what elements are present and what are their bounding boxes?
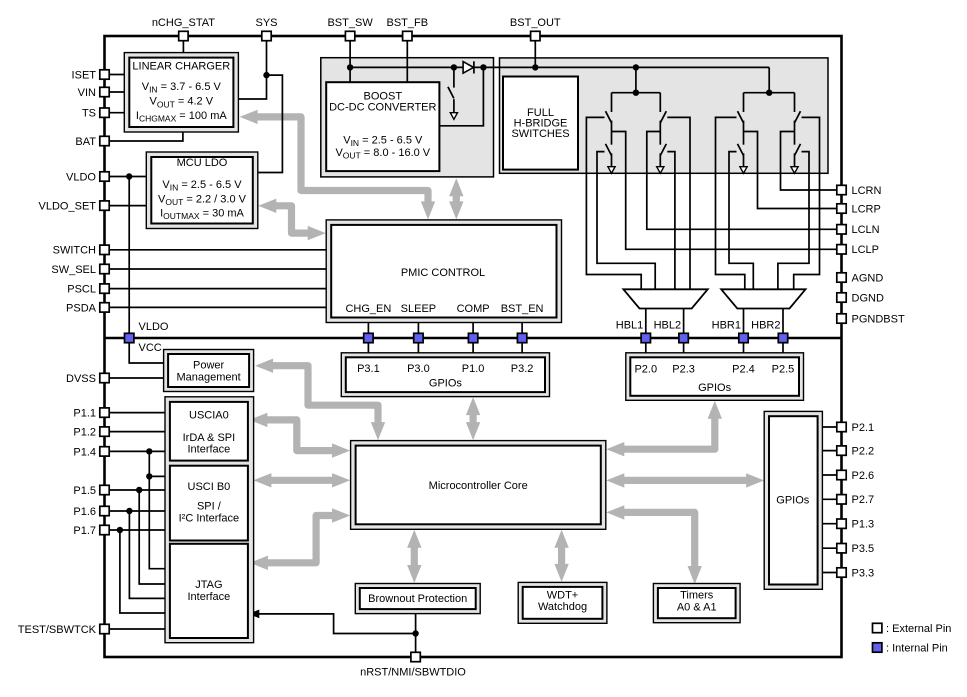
block Brownout Protection [355,584,480,614]
wire rail to right h-bridge [768,67,770,92]
bus arrow JTAG to Microcontroller Core [250,508,350,570]
svg-text:SWITCH: SWITCH [53,245,96,257]
block MCU LDO [146,152,257,229]
label MCU LDO [158,157,247,221]
svg-text:BST_EN: BST_EN [501,303,544,315]
block GPIOs P2 [626,353,804,401]
wire right GPIOs to P2.6 [822,474,841,476]
label FULL H-BRIDGE SWITCHES [511,107,569,140]
wire TS to LINEAR CHARGER [105,112,125,114]
svg-text:P3.0: P3.0 [407,363,430,375]
legend external pin [873,623,952,635]
wire leg D output to LCRN [781,132,842,191]
pin LCLP [837,244,879,256]
pin VLDO_SET [39,201,110,213]
label Microcontroller Core [429,480,528,492]
label LINEAR CHARGER [132,60,230,123]
svg-text:VIN: VIN [78,87,96,99]
svg-text:P1.5: P1.5 [73,485,96,497]
block JTAG Interface [170,544,248,638]
wire BST_FB to BOOST [406,36,408,82]
svg-text:ISET: ISET [72,69,97,81]
block Power Management [164,350,254,392]
svg-text:I²C Interface: I²C Interface [179,513,240,525]
svg-text:COMP: COMP [457,303,490,315]
svg-text:PMIC CONTROL: PMIC CONTROL [401,267,485,279]
label JTAG Interface [187,579,230,603]
svg-text:P2.6: P2.6 [852,470,875,482]
svg-text:nRST/NMI/SBWTDIO: nRST/NMI/SBWTDIO [360,667,466,679]
pin nCHG_STAT [152,17,215,41]
wire SLEEP to GPIOs [417,323,419,353]
svg-text:CHG_EN: CHG_EN [345,303,391,315]
wire HBR2 to GPIOs [782,309,784,353]
wire leg C low tap to mux [729,152,753,290]
boost shaded region [321,58,494,177]
svg-text:Power: Power [193,359,225,371]
svg-text:Interface: Interface [187,443,230,455]
pin P2.7 [837,494,874,506]
switch HB right leg D low [791,132,801,174]
wire TEST/SBWTCK to JTAG [105,628,170,630]
bus arrow GPIOs P2 to Microcontroller Core [606,401,722,457]
svg-text:BST_SW: BST_SW [327,17,373,29]
pin LCLN [837,224,880,236]
wire P1.5 net [105,487,170,584]
svg-text:GPIOs: GPIOs [698,382,732,394]
wire VLDO_SET to MCU LDO [105,205,147,207]
pin P1.2 [73,427,109,439]
label USCI B0 [179,481,240,525]
svg-text:JTAG: JTAG [195,579,222,591]
pin TS [82,108,109,120]
svg-text:HBL1: HBL1 [616,320,644,332]
wire COMP to GPIOs [472,323,474,353]
switch boost [448,67,458,119]
pin AGND [837,272,884,284]
wire leg B low tap to mux [667,152,675,290]
svg-text:P2.4: P2.4 [732,364,755,376]
wire SYS net [238,36,282,173]
svg-text:P1.6: P1.6 [73,506,96,518]
divider between PMIC and MCU sections [105,337,842,340]
block Microcontroller Core [351,441,606,530]
svg-text:P1.1: P1.1 [73,408,96,420]
block right GPIOs [764,411,822,589]
svg-text:P3.1: P3.1 [357,363,380,375]
bus arrow GPIOs P3 to Microcontroller Core [466,397,480,440]
pin VLDO [66,171,109,183]
wire leg B output to LCLN [647,132,842,230]
switch HB right leg D high [795,93,801,132]
internal pin CHG_EN [364,333,373,342]
svg-text:P1.3: P1.3 [852,519,875,531]
pin P1.4 [73,446,109,458]
svg-text:IrDA & SPI: IrDA & SPI [183,432,236,444]
internal pin HBR2 [751,320,788,343]
svg-text:SPI /: SPI / [197,501,222,513]
switch HB left leg A low [606,132,616,174]
svg-text:P1.4: P1.4 [73,446,96,458]
wire diode to BOOST feedback [439,67,483,125]
svg-text:LCLP: LCLP [852,244,880,256]
switch HB left leg A high [606,93,612,132]
block USCIA0 IrDA and SPI Interface [170,402,248,461]
wire BST_OUT drop [532,36,538,71]
label BOOST DC-DC CONVERTER [329,91,436,161]
svg-text:P3.5: P3.5 [852,543,875,555]
pin LCRN [837,185,882,197]
svg-text:HBR2: HBR2 [751,320,780,332]
wire HBL1 to GPIOs [645,309,647,353]
label GPIOs P3 [357,363,533,390]
internal pin HBL2 [654,320,689,343]
svg-text:P2.3: P2.3 [672,364,695,376]
svg-text:P2.1: P2.1 [852,422,875,434]
svg-text:BST_OUT: BST_OUT [510,17,561,29]
wire right GPIOs to P3.5 [822,547,841,549]
svg-text:AGND: AGND [852,272,884,284]
wire P1.2 to USCIA0 [105,431,170,433]
pin P1.5 [73,485,109,497]
svg-text:A0 & A1: A0 & A1 [677,601,717,613]
svg-text:DGND: DGND [852,292,884,304]
svg-text:LINEAR CHARGER: LINEAR CHARGER [132,60,230,72]
svg-text:PSDA: PSDA [66,302,97,314]
wire P1.1 to USCIA0 [105,412,170,414]
pin LCRP [837,203,881,215]
block Timers A0 A1 [653,584,740,623]
wire leg C high tap to mux [716,117,745,289]
pin nRST/NMI/SBWTDIO [360,652,466,678]
svg-text:Timers: Timers [680,589,714,601]
svg-text:SLEEP: SLEEP [401,303,436,315]
wire leg A high tap to mux [586,117,641,289]
pin PSDA [66,302,109,314]
wire PSDA to PMIC CONTROL [105,306,327,308]
pin BAT [75,136,109,148]
block USCI B0 SPI I2C Interface [170,466,248,541]
svg-text:nCHG_STAT: nCHG_STAT [152,17,215,29]
svg-text:SW_SEL: SW_SEL [51,264,96,276]
block GPIOs P3 [341,353,549,397]
pin P2.2 [837,446,874,458]
svg-text:P1.0: P1.0 [462,363,485,375]
pin P3.5 [837,543,874,555]
label USCIA0 [183,410,236,456]
h-bridge shaded region [500,58,829,173]
block WDT+ Watchdog [518,582,607,623]
svg-text:: Internal Pin: : Internal Pin [886,643,948,655]
svg-text:: External Pin: : External Pin [886,623,951,635]
label Brownout Protection [368,593,467,605]
label WDT+ Watchdog [538,589,587,613]
svg-text:Watchdog: Watchdog [538,601,587,613]
bus arrow Microcontroller Core to right GPIOs [606,473,764,487]
svg-text:DC-DC CONVERTER: DC-DC CONVERTER [329,102,436,114]
block BOOST DC-DC CONVERTER [326,82,439,171]
legend internal pin [873,643,948,655]
pin PGNDBST [837,313,905,325]
wire leg A low tap to mux [597,152,655,290]
internal pin HBL1 [616,320,651,343]
svg-text:VLDO: VLDO [66,171,96,183]
svg-text:SYS: SYS [255,17,277,29]
internal pin SLEEP [414,333,423,342]
pin P1.6 [73,506,109,518]
bus arrow Microcontroller Core to Brownout Protection [407,530,421,583]
svg-text:LCLN: LCLN [852,224,880,236]
wire BAT to LINEAR CHARGER [105,132,183,141]
svg-text:Management: Management [176,371,240,383]
wire CHG_EN to GPIOs [367,323,369,353]
svg-text:USCIA0: USCIA0 [189,410,229,422]
pin P3.3 [837,567,874,579]
mux right h-bridge [721,289,805,308]
svg-text:P2.5: P2.5 [772,364,795,376]
wire SW_SEL to PMIC CONTROL [105,268,327,270]
pin DGND [837,292,884,304]
svg-text:DVSS: DVSS [66,373,96,385]
pin P2.6 [837,470,874,482]
svg-text:Interface: Interface [187,591,230,603]
label Power Management [176,359,240,383]
svg-text:SWITCHES: SWITCHES [511,128,569,140]
wire leg D low tap to mux [778,152,809,290]
svg-text:WDT+: WDT+ [547,589,578,601]
block PMIC CONTROL [326,220,561,323]
wire DVSS to Power Management [105,377,164,379]
pin ISET [72,69,110,81]
pin P1.7 [73,525,109,537]
svg-text:VCC: VCC [139,342,162,354]
svg-text:P3.3: P3.3 [852,567,875,579]
svg-text:GPIOs: GPIOs [429,377,463,389]
wire P1.6 net [105,508,170,599]
svg-text:BAT: BAT [75,136,96,148]
wire leg D high tap to mux [794,117,820,289]
label Timers A0 A1 [677,589,717,613]
wire ISET to LINEAR CHARGER [105,74,125,76]
wire HBR1 to GPIOs [743,309,745,353]
wire P1.4 net [105,448,170,569]
internal pin COMP [468,333,477,342]
wire HBL2 to GPIOs [683,309,685,353]
switch HB right leg C high [738,93,744,132]
wire nCHG_STAT to LINEAR CHARGER [182,36,184,53]
switch HB right leg C low [738,132,748,174]
wire right GPIOs to P3.3 [822,572,841,574]
pin P1.3 [837,519,874,531]
pin SW_SEL [51,264,109,276]
wire P1.7 net [105,527,170,613]
pin P1.1 [73,408,109,420]
pin VIN [78,87,110,99]
wire leg A output to LCLP [612,132,842,250]
wire BST_EN to GPIOs [521,323,523,353]
svg-text:Microcontroller Core: Microcontroller Core [429,480,528,492]
bus arrow LINEAR CHARGER to PMIC CONTROL [240,110,436,220]
bus arrow Microcontroller Core to WDT [554,530,568,582]
pin DVSS [66,373,109,385]
svg-text:LCRP: LCRP [852,203,881,215]
label PMIC CONTROL [345,267,543,315]
wire leg B high tap to mux [667,117,690,289]
internal pin VCC (VLDO rail) [125,321,169,354]
bus arrow MCU LDO to PMIC CONTROL [258,199,325,241]
pin SWITCH [53,245,110,257]
wire SWITCH to PMIC CONTROL [105,249,327,251]
pin PSCL [67,284,109,296]
bus arrow USCI B0 to Microcontroller Core [253,473,350,487]
wire PSCL to PMIC CONTROL [105,288,327,290]
diode D1 [463,61,474,73]
svg-text:P2.7: P2.7 [852,494,875,506]
chip outline [105,36,842,657]
node right h-bridge supply [744,90,795,96]
wire VLDO to MCU LDO and VCC rail [105,173,164,363]
wire nRST net with arrow into JTAG [248,610,418,658]
bus arrow Power Management to Microcontroller [255,359,385,441]
svg-text:MCU LDO: MCU LDO [177,157,228,169]
wire boost output rail [350,64,769,70]
wire BST_SW to BOOST [347,36,353,82]
svg-text:P1.2: P1.2 [73,427,96,439]
bus arrow Microcontroller Core to Timers [606,505,702,584]
internal pin BST_EN [517,333,526,342]
svg-text:GPIOs: GPIOs [776,495,810,507]
pin BST_FB [387,17,429,41]
svg-text:HBL2: HBL2 [654,320,682,332]
block USCI group frame [165,397,254,643]
svg-text:USCI B0: USCI B0 [188,481,231,493]
block LINEAR CHARGER [124,53,238,132]
wire leg C output to LCRP [744,132,842,209]
wire right GPIOs to P1.3 [822,523,841,525]
svg-text:TEST/SBWTCK: TEST/SBWTCK [18,624,97,636]
bus arrow BOOST to PMIC CONTROL [449,178,463,219]
pin BST_OUT [510,17,561,41]
wire right GPIOs to P2.7 [822,498,841,500]
switch HB left leg B low [657,132,667,174]
bus arrow USCIA0 to Microcontroller Core [249,413,350,458]
svg-text:P2.0: P2.0 [634,364,657,376]
pin SYS [255,17,277,41]
svg-text:P2.2: P2.2 [852,446,875,458]
svg-text:P3.2: P3.2 [511,363,534,375]
internal pin HBR1 [712,320,749,343]
pin BST_SW [327,17,373,41]
svg-text:TS: TS [82,108,96,120]
wire VIN to LINEAR CHARGER [105,91,125,93]
svg-text:BST_FB: BST_FB [387,17,429,29]
svg-text:VLDO_SET: VLDO_SET [39,201,97,213]
pin P2.1 [837,422,874,434]
wire right GPIOs to P2.2 [822,450,841,452]
svg-text:Brownout Protection: Brownout Protection [368,593,467,605]
label right GPIOs [776,495,810,507]
svg-text:HBR1: HBR1 [712,320,741,332]
switch HB left leg B high [660,93,666,132]
block FULL H-BRIDGE SWITCHES [503,77,578,170]
svg-text:LCRN: LCRN [852,185,882,197]
svg-text:PGNDBST: PGNDBST [852,313,905,325]
svg-text:VLDO: VLDO [139,321,169,333]
svg-text:PSCL: PSCL [67,284,96,296]
label GPIOs P2 [634,364,794,394]
pin TEST/SBWTCK [18,624,109,636]
wire right GPIOs to P2.1 [822,426,841,428]
svg-text:P1.7: P1.7 [73,525,96,537]
mux left h-bridge [623,289,707,308]
node left h-bridge supply [612,64,661,96]
